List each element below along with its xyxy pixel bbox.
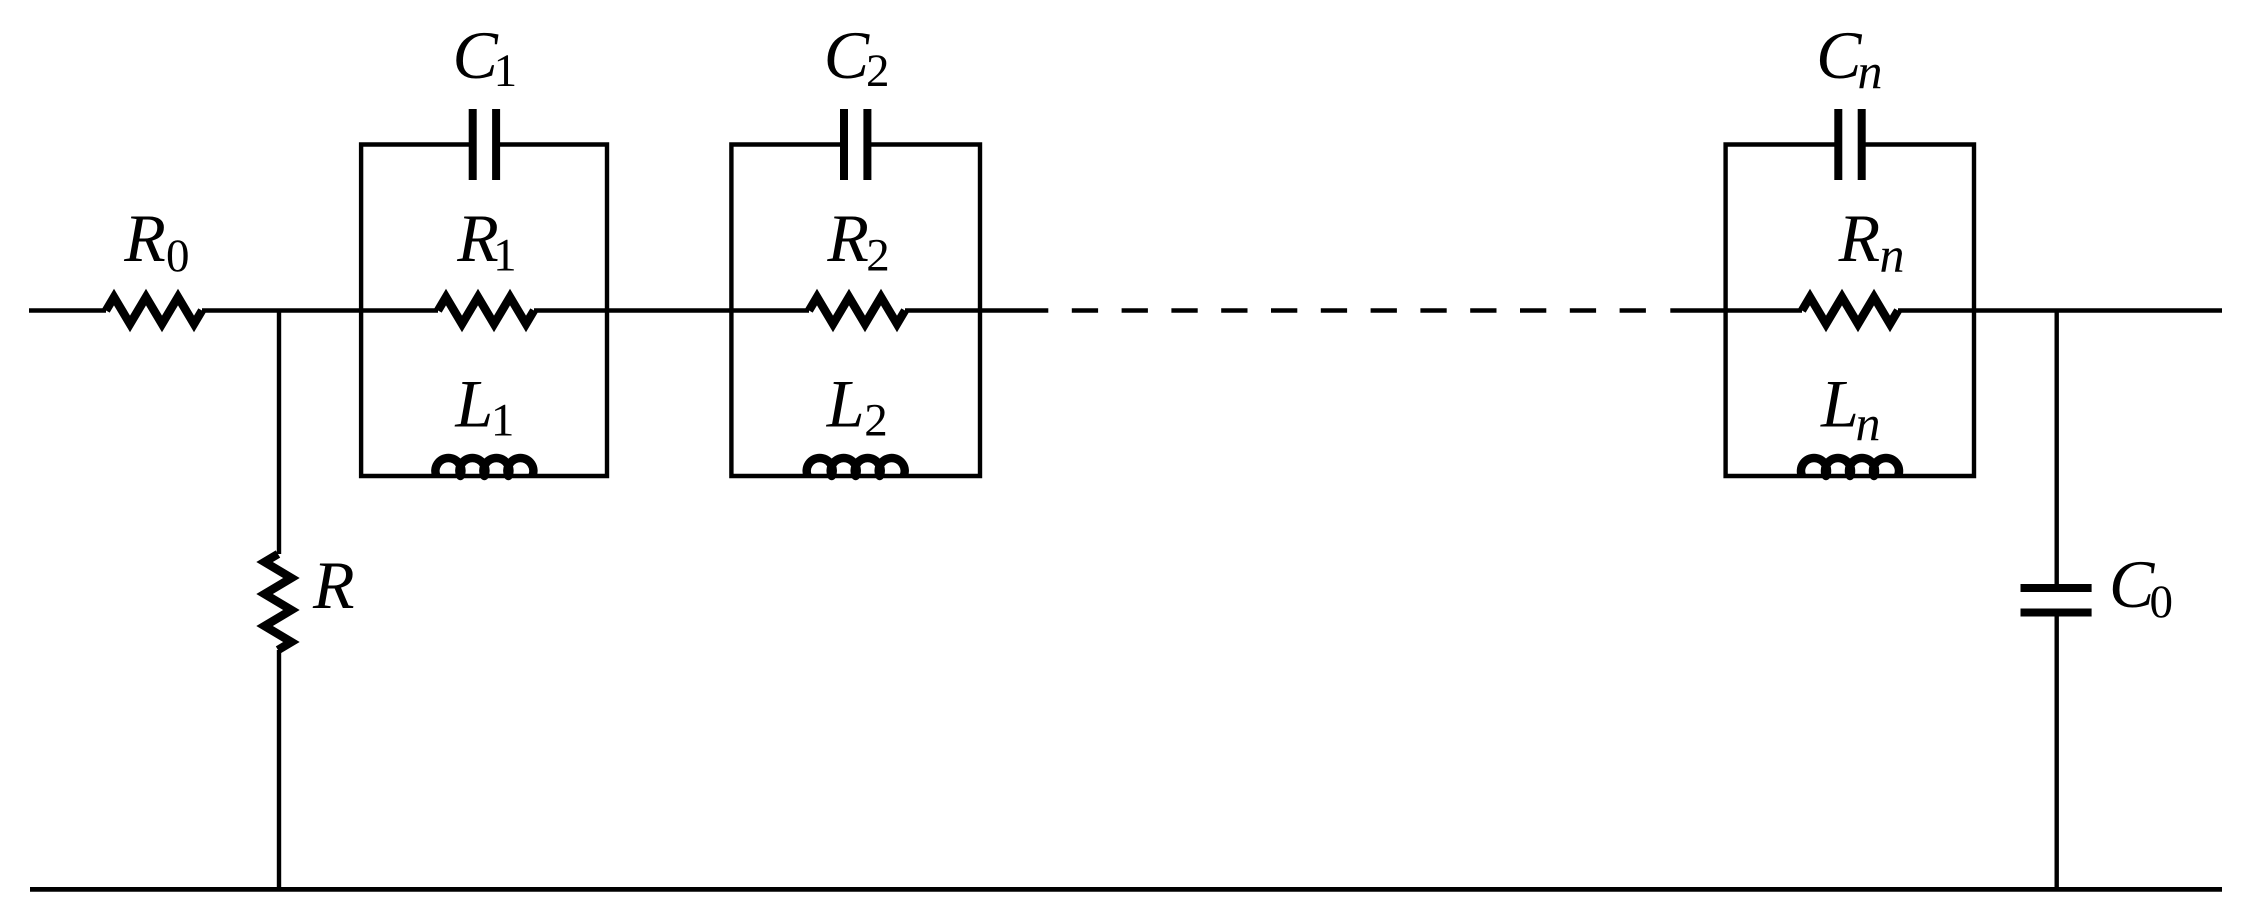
svg-text:n: n bbox=[1880, 227, 1905, 283]
wire (parallel block 1 loop) bbox=[361, 145, 607, 477]
capacitor Cn bbox=[1838, 109, 1861, 180]
svg-text:C: C bbox=[1816, 17, 1862, 93]
wire bbox=[534, 308, 809, 312]
svg-text:R: R bbox=[312, 547, 355, 623]
svg-text:C: C bbox=[453, 17, 499, 93]
wire bbox=[1670, 308, 1802, 312]
capacitor C2 bbox=[844, 109, 867, 180]
svg-text:L: L bbox=[826, 366, 865, 442]
resistor R0 bbox=[106, 297, 202, 324]
wire (parallel block n loop) bbox=[1726, 145, 1974, 477]
resistor R bbox=[265, 554, 292, 650]
wire bbox=[29, 308, 106, 312]
svg-text:0: 0 bbox=[166, 230, 190, 282]
svg-text:n: n bbox=[1856, 395, 1881, 451]
svg-text:2: 2 bbox=[866, 45, 890, 97]
resistor Rn bbox=[1802, 297, 1898, 324]
wire bbox=[2054, 613, 2058, 890]
svg-text:n: n bbox=[1858, 43, 1883, 99]
svg-text:L: L bbox=[454, 366, 493, 442]
svg-text:1: 1 bbox=[494, 45, 517, 97]
capacitor C1 bbox=[473, 109, 496, 180]
svg-text:1: 1 bbox=[491, 395, 515, 447]
wire (bottom rail) bbox=[30, 887, 2222, 892]
inductor L1 bbox=[435, 458, 533, 476]
svg-text:0: 0 bbox=[2150, 576, 2174, 628]
svg-text:R: R bbox=[123, 200, 166, 276]
wire bbox=[277, 311, 281, 555]
svg-text:2: 2 bbox=[866, 230, 890, 282]
svg-text:R: R bbox=[1838, 200, 1881, 276]
inductor Ln bbox=[1801, 458, 1899, 476]
inductor L2 bbox=[807, 458, 905, 476]
resistor R2 bbox=[809, 297, 905, 324]
capacitor C0 bbox=[2021, 588, 2092, 613]
wire bbox=[905, 308, 1048, 312]
svg-text:R: R bbox=[826, 200, 869, 276]
svg-text:2: 2 bbox=[864, 395, 888, 447]
svg-text:C: C bbox=[2109, 546, 2155, 622]
svg-text:1: 1 bbox=[493, 230, 516, 282]
wire (dashed continuation) bbox=[1072, 308, 1647, 312]
resistor R1 bbox=[438, 297, 534, 324]
svg-text:L: L bbox=[1820, 366, 1859, 442]
wire bbox=[2054, 311, 2058, 589]
svg-text:C: C bbox=[824, 17, 870, 93]
wire (parallel block 2 loop) bbox=[731, 145, 980, 477]
wire bbox=[202, 308, 438, 312]
wire bbox=[277, 650, 281, 889]
wire bbox=[1898, 308, 2222, 312]
